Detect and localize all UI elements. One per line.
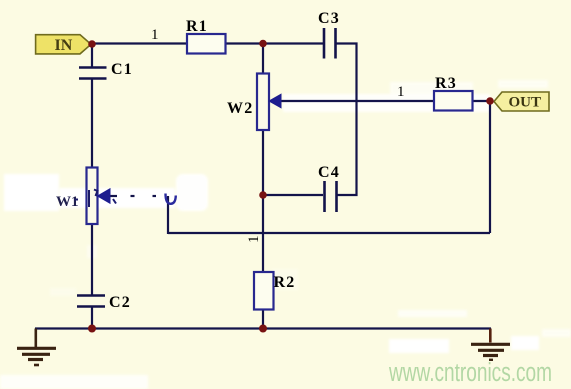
svg-text:W1: W1 (56, 194, 79, 210)
svg-text:IN: IN (55, 37, 73, 54)
svg-text:W2: W2 (227, 100, 253, 117)
whiteout patch right edge (542, 329, 571, 337)
whiteout patch behind W1 label and wiper wire (59, 188, 175, 208)
svg-text:C1: C1 (111, 61, 133, 78)
wire W2 wiper to R3 (280, 100, 434, 102)
junction node A (R1/C3/W2) (259, 40, 267, 48)
wire bottom rail (35, 327, 491, 329)
whiteout patch left of right ground (389, 339, 449, 353)
svg-text:1: 1 (151, 27, 159, 43)
svg-text:OUT: OUT (509, 95, 542, 111)
potentiometer W2 wiper arrow (269, 94, 281, 108)
wire W1 wiper dashes (partially erased) (108, 195, 156, 197)
resistor R3 (434, 91, 473, 111)
svg-text:www.cntronics.com: www.cntronics.com (388, 359, 552, 387)
wire IN node down to C1 (91, 44, 93, 67)
whiteout patch above R3 label (390, 82, 473, 95)
junction node at IN (88, 40, 96, 48)
svg-text:R3: R3 (435, 75, 457, 92)
wire C3 right plate to corner and down to C4 right plate (337, 44, 357, 196)
watermark remnant hook arc at wiper corner (166, 194, 176, 204)
junction node B (W2 bottom/C4) (259, 191, 267, 199)
svg-text:C4: C4 (318, 164, 340, 181)
whiteout patch left of C2 label (50, 288, 76, 296)
resistor R2 (254, 272, 274, 310)
svg-text:1: 1 (246, 236, 262, 244)
potentiometer W1 wiper arrow (98, 189, 111, 204)
wire W1 bottom to C2 (91, 224, 93, 295)
wire mid rail (168, 232, 490, 234)
svg-text:C3: C3 (318, 10, 340, 27)
wire R3 to OUT node (472, 100, 490, 102)
capacitor C4 (325, 181, 337, 212)
whiteout patch band along W2 wiper wire (283, 94, 490, 112)
svg-text:C2: C2 (109, 294, 131, 311)
resistor R1 (187, 34, 226, 54)
junction node R2 bottom rail (259, 325, 267, 333)
junction node C2 bottom rail (88, 325, 96, 333)
whiteout patch above OUT tag (498, 80, 548, 88)
wire node A down to W2 top (262, 44, 264, 74)
svg-text:R2: R2 (274, 274, 296, 291)
ground right (471, 329, 510, 360)
whiteout patch blob right of W1 wiper corner (176, 174, 208, 211)
wire R2 bottom to bottom rail (262, 310, 264, 329)
svg-text:R1: R1 (186, 18, 208, 35)
whiteout streak on C2 wire (87, 245, 97, 258)
whiteout patch right of right ground (511, 336, 539, 350)
wire W2 bottom through node B down to R2 top (262, 130, 264, 272)
watermark remnant strokes over W1 body (75, 190, 98, 208)
whiteout patch around R2 label (272, 269, 298, 290)
potentiometer W2 body (257, 74, 269, 131)
port tag OUT (494, 92, 549, 111)
whiteout patch above bottom wire right (398, 310, 467, 317)
wire W1 wiper corner down to mid rail (167, 196, 169, 234)
watermark remnant comma mark under W1 wiper (113, 199, 116, 204)
wire R1 to C3 left plate (225, 42, 323, 44)
wire node B to C4 left plate (263, 194, 323, 196)
port tag IN (36, 35, 91, 54)
wire top from IN node to R1 (92, 42, 188, 44)
junction node at OUT (486, 97, 494, 105)
wire C2 to bottom rail (91, 307, 93, 329)
capacitor C3 (324, 28, 336, 59)
capacitor C2 (77, 296, 105, 307)
whiteout patch left of W1 (4, 174, 59, 211)
capacitor C1 (79, 68, 107, 79)
wire C1 to W1 top (91, 80, 93, 168)
wire OUT node down to mid rail (489, 101, 491, 233)
potentiometer W1 body (87, 168, 98, 225)
ground left (17, 329, 56, 366)
whiteout patch bottom left corner (0, 375, 148, 389)
svg-text:1: 1 (397, 84, 405, 100)
